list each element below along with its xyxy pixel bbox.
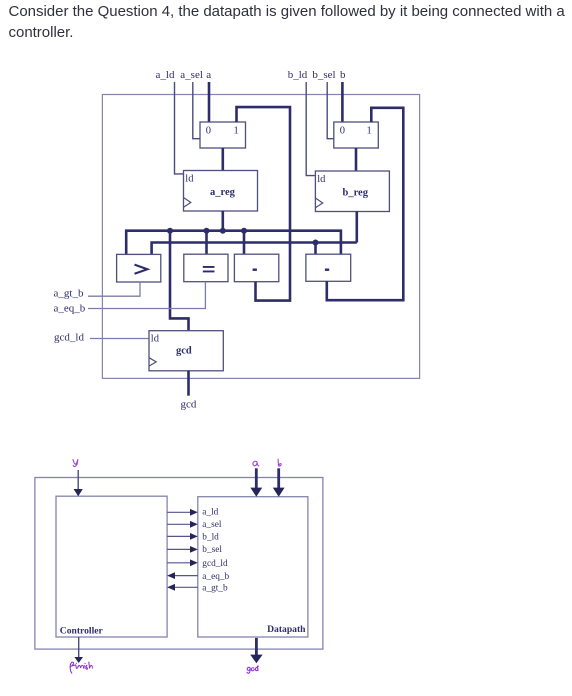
register gcd bbox=[149, 331, 223, 371]
register a_reg bbox=[184, 171, 258, 212]
label b_sel (bottom) bbox=[202, 545, 222, 555]
label a_sel bbox=[180, 69, 203, 81]
handwritten label y bbox=[73, 459, 78, 466]
junction dot bus A / a_reg bbox=[220, 228, 226, 234]
wire a_ld controller to datapath bbox=[167, 509, 198, 516]
svg-text:ld: ld bbox=[317, 174, 326, 185]
svg-text:b_sel: b_sel bbox=[202, 545, 222, 555]
label a_ld (bottom) bbox=[202, 507, 218, 517]
mux B bbox=[334, 122, 379, 148]
junction dot bus A / equality bbox=[204, 228, 210, 234]
subtractor 2 bbox=[306, 254, 351, 281]
wire a_sel bbox=[193, 82, 200, 139]
label a_gt_b (bottom) bbox=[202, 584, 228, 594]
svg-text:a_gt_b: a_gt_b bbox=[54, 288, 84, 300]
input arrow y bbox=[74, 470, 83, 496]
svg-text:a_eq_b: a_eq_b bbox=[54, 303, 86, 315]
wire a_eq_b datapath to controller bbox=[167, 572, 198, 579]
wire subtractor 1 output to mux A input 1 bbox=[237, 107, 291, 301]
svg-text:a: a bbox=[206, 69, 211, 81]
label a_eq_b bbox=[54, 303, 86, 315]
output arrow gcd bbox=[250, 638, 262, 663]
svg-text:a_sel: a_sel bbox=[180, 69, 203, 81]
comparator greater-than bbox=[117, 254, 161, 282]
svg-text:a_ld: a_ld bbox=[156, 69, 175, 81]
svg-text:Datapath: Datapath bbox=[267, 624, 306, 635]
label gcd_ld (bottom) bbox=[202, 559, 228, 569]
label gcd output bbox=[181, 399, 197, 411]
label a_ld bbox=[156, 69, 175, 81]
register b_reg bbox=[315, 171, 389, 212]
comparator equality bbox=[184, 254, 228, 282]
label a_sel (bottom) bbox=[202, 520, 222, 530]
label b bbox=[340, 69, 346, 81]
svg-text:b_reg: b_reg bbox=[343, 188, 369, 199]
label b_ld (bottom) bbox=[202, 533, 219, 543]
wire a_gt_b datapath to controller bbox=[167, 584, 198, 591]
wire b_ld controller to datapath bbox=[167, 533, 198, 540]
wire gcd_ld controller to datapath bbox=[167, 559, 198, 566]
wire a_gt_b bbox=[88, 282, 140, 296]
wire b_reg out bbox=[355, 211, 358, 242]
wire subtractor 2 output to mux B input 1 bbox=[327, 108, 404, 300]
svg-text:a_reg: a_reg bbox=[210, 187, 236, 198]
svg-text:gcd: gcd bbox=[176, 346, 192, 357]
subtractor 1 bbox=[234, 254, 278, 282]
label a_eq_b (bottom) bbox=[202, 572, 229, 582]
wire a_sel controller to datapath bbox=[167, 521, 198, 528]
wire gcd_ld bbox=[90, 338, 149, 340]
svg-text:Controller: Controller bbox=[60, 626, 104, 637]
svg-text:gcd_ld: gcd_ld bbox=[202, 559, 228, 569]
wire mux B out bbox=[355, 148, 358, 171]
svg-text:1: 1 bbox=[234, 125, 239, 136]
wire b_sel bbox=[327, 82, 334, 139]
svg-text:gcd_ld: gcd_ld bbox=[54, 332, 84, 344]
wire bus B to subtractor 2 bbox=[314, 243, 317, 255]
wire bus B (b value) bbox=[152, 243, 357, 255]
wire a (input) bbox=[208, 82, 211, 122]
wire bus A to subtractor 1 bbox=[243, 231, 246, 255]
wire bus A to gcd register bbox=[170, 231, 189, 331]
svg-text:a_sel: a_sel bbox=[202, 520, 222, 530]
label gcd_ld bbox=[54, 332, 84, 344]
svg-text:0: 0 bbox=[340, 125, 345, 136]
svg-text:b: b bbox=[340, 69, 346, 81]
input arrow b bbox=[273, 468, 285, 496]
handwritten label a bbox=[253, 461, 259, 466]
label b_ld bbox=[288, 69, 308, 81]
label a_gt_b bbox=[54, 288, 84, 300]
wire mux A out bbox=[222, 148, 225, 171]
wire gcd output bbox=[187, 371, 190, 396]
junction dot bus A / subtractor 1 bbox=[241, 228, 247, 234]
svg-text:0: 0 bbox=[206, 125, 211, 136]
datapath outer box bbox=[102, 95, 419, 379]
junction dot bus B / subtractor 2 bbox=[313, 240, 319, 246]
handwritten label gcd (bottom) bbox=[247, 666, 259, 673]
wire a_ld bbox=[175, 82, 184, 174]
svg-text:1: 1 bbox=[367, 125, 372, 136]
label b_sel bbox=[312, 69, 335, 81]
junction dot bus A / gcd bbox=[167, 228, 173, 234]
svg-text:b_ld: b_ld bbox=[288, 69, 308, 81]
svg-text:ld: ld bbox=[185, 174, 194, 185]
svg-text:b_sel: b_sel bbox=[312, 69, 335, 81]
system outer box bbox=[35, 478, 323, 650]
handwritten label finish bbox=[70, 662, 92, 673]
wire a_eq_b bbox=[88, 282, 205, 309]
wire b (input) bbox=[341, 82, 344, 122]
datapath box bbox=[198, 497, 308, 637]
wire bus A (a value) bbox=[126, 231, 341, 255]
svg-text:a_eq_b: a_eq_b bbox=[202, 572, 229, 582]
svg-text:ld: ld bbox=[151, 334, 160, 345]
input arrow a bbox=[250, 468, 262, 496]
svg-text:a_gt_b: a_gt_b bbox=[202, 584, 228, 594]
wire b_ld bbox=[306, 82, 315, 176]
handwritten label b bbox=[278, 459, 281, 466]
svg-text:b_ld: b_ld bbox=[202, 533, 219, 543]
wire bus A to equality comparator bbox=[205, 231, 208, 255]
mux A bbox=[200, 122, 246, 148]
wire b_sel controller to datapath bbox=[167, 546, 198, 553]
output arrow finish bbox=[74, 637, 83, 663]
wire a_reg out bbox=[222, 211, 225, 231]
controller box bbox=[56, 496, 167, 637]
svg-text:a_ld: a_ld bbox=[202, 507, 218, 517]
svg-text:gcd: gcd bbox=[181, 399, 197, 411]
label a bbox=[206, 69, 211, 81]
